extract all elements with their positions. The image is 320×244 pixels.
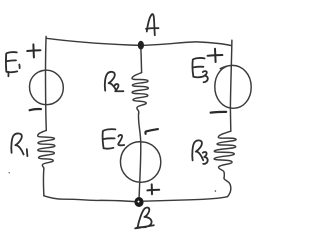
wire left lower [43, 168, 45, 196]
resistor R1 [38, 130, 55, 168]
wire middle lower (E2 to node B) [139, 142, 141, 198]
plus sign E1 [27, 44, 40, 57]
wire bottom left (to node B) [44, 196, 134, 202]
wire right lower (R3 to corner hook) [224, 177, 231, 197]
label R1 [11, 133, 27, 156]
node A [138, 41, 144, 50]
wire middle (R2 to E2) [138, 114, 140, 142]
label E3 [193, 58, 208, 82]
minus sign E2 [145, 129, 157, 134]
voltage source E1 [29, 70, 63, 105]
label E2 [103, 129, 125, 149]
wire right vertical upper [230, 40, 232, 131]
label B [135, 208, 154, 229]
label R3 [192, 140, 207, 164]
wire bottom right (node B to right corner) [144, 197, 228, 202]
wire top (node A rail) [46, 38, 231, 45]
node B [134, 197, 143, 207]
wire left vertical (E1 branch) [45, 36, 48, 130]
wire middle upper (A to R2) [140, 50, 143, 73]
speck below R1 label [9, 172, 10, 173]
voltage source E2 [120, 142, 160, 183]
speck near bottom wire [215, 190, 217, 192]
label R2 [105, 72, 124, 91]
minus sign E3 [211, 111, 227, 114]
plus sign E3 [208, 49, 223, 62]
resistor R2 [132, 73, 148, 114]
label A [146, 14, 159, 35]
minus sign E1 [30, 109, 41, 110]
label E1 [6, 52, 20, 76]
plus sign E2 [147, 184, 159, 194]
resistor R3 [214, 131, 236, 177]
voltage source E3 [215, 65, 251, 108]
